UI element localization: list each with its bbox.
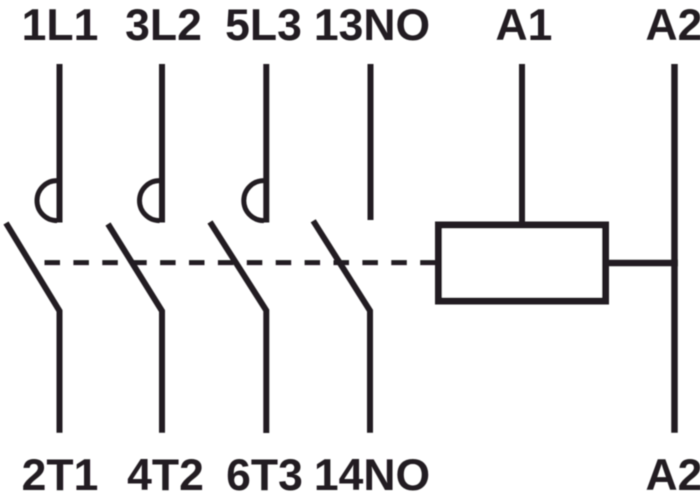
contact arc pole 2 <box>140 181 160 221</box>
wire pole 4 top terminal 13NO <box>368 64 374 220</box>
svg-text:A2: A2 <box>646 451 700 500</box>
svg-text:4T2: 4T2 <box>127 451 204 500</box>
svg-text:14NO: 14NO <box>314 451 430 500</box>
wire pole 3 top terminal 5L3 <box>263 64 269 223</box>
svg-text:6T3: 6T3 <box>226 451 303 500</box>
switch blade pole 1 <box>6 223 60 433</box>
wire pole 1 top terminal 1L1 <box>57 64 63 223</box>
wire coil to A2 node <box>609 260 678 267</box>
svg-text:A2: A2 <box>646 1 700 50</box>
switch blade pole 2 <box>108 224 162 433</box>
svg-text:A1: A1 <box>496 1 553 50</box>
contact arc pole 3 <box>244 181 264 221</box>
coil K1 <box>439 225 606 301</box>
svg-text:2T1: 2T1 <box>22 451 99 500</box>
svg-text:13NO: 13NO <box>314 1 430 50</box>
svg-text:1L1: 1L1 <box>22 1 99 50</box>
switch blade pole 4 (NO auxiliary contact) <box>313 221 370 433</box>
svg-text:3L2: 3L2 <box>125 1 202 50</box>
mechanical linkage dashed line <box>45 260 437 265</box>
wire pole 2 top terminal 3L2 <box>159 64 165 223</box>
wire A2 vertical <box>671 64 678 433</box>
contact arc pole 1 <box>37 181 57 221</box>
switch blade pole 3 <box>210 222 266 433</box>
svg-text:5L3: 5L3 <box>225 1 302 50</box>
wire A1 to coil <box>519 64 525 222</box>
